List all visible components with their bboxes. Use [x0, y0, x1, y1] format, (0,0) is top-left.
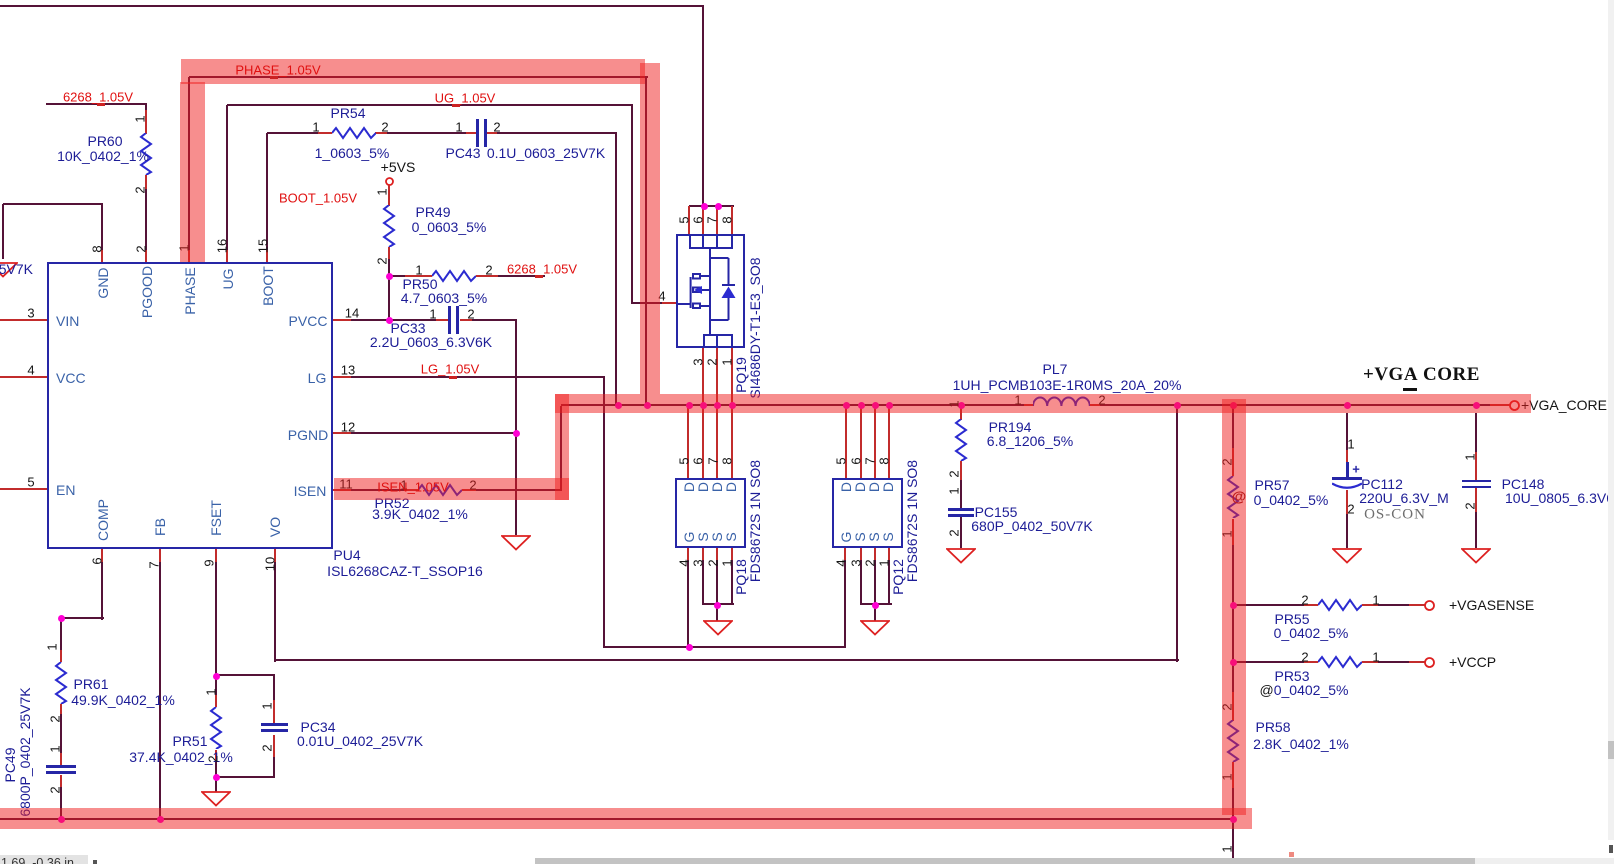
capacitor PC33 [448, 306, 451, 334]
wire net ISEN_1.05V from pin11 [333, 489, 418, 491]
label PR53 [1274, 668, 1309, 684]
pin number 7 [147, 561, 162, 568]
label PR50 [402, 276, 437, 292]
resistor PR55 [1318, 598, 1362, 612]
net label +VGA_CORE [1363, 364, 1418, 386]
refdes PQ19 [733, 357, 749, 393]
wire pin VCC wire [0, 376, 47, 378]
right scrollbar [1608, 0, 1614, 840]
pin name PHASE [182, 267, 198, 314]
junction [1174, 402, 1181, 409]
highlight right column [1222, 399, 1246, 815]
wire wire PC34 bottom [216, 776, 275, 778]
pin number 12 [341, 420, 355, 435]
highlight net PHASE_1.05V horizontal [181, 59, 645, 84]
label PC148 [1502, 476, 1545, 492]
label PR51 [172, 733, 207, 749]
wire net BOOT riser from pin15 [266, 133, 268, 262]
wire wire to PQ19 pin4 [632, 302, 676, 304]
pin name LG [308, 370, 327, 386]
pin name VO [267, 517, 283, 537]
junction [958, 402, 965, 409]
pin number 8 [90, 245, 105, 252]
resistor PR60 [139, 133, 153, 175]
wire wire output node to PR57 [1232, 406, 1234, 476]
wire pin FB wire to bottom net [159, 549, 161, 820]
pin number 1 bottom [1220, 845, 1235, 852]
junction [700, 402, 707, 409]
pin number 10 [263, 557, 278, 571]
wire wire PR51 pin2 [215, 750, 217, 778]
label PR58 [1255, 719, 1290, 735]
label PR57 [1254, 477, 1289, 493]
ground [860, 620, 890, 636]
junction [1230, 602, 1237, 609]
label PR52 [374, 495, 409, 511]
net label LG_1.05V [421, 362, 480, 377]
pin number 5 [27, 475, 34, 490]
terminal +VGASENSE [1423, 599, 1436, 612]
highlight bottom net [0, 808, 1252, 829]
junction [644, 402, 651, 409]
pin number 16 [215, 239, 230, 253]
junction [615, 402, 622, 409]
pin name BOOT [260, 266, 276, 306]
resistor PR52 [418, 483, 462, 497]
junction [213, 774, 220, 781]
wire net PHASE_1.05V drop to pin1 [188, 77, 190, 262]
ground [501, 535, 531, 551]
wire net LG_1.05V horizontal [333, 376, 605, 378]
label PC112 [1361, 476, 1403, 492]
junction [714, 402, 721, 409]
clipped label 25V7K [0, 261, 33, 277]
wire wire PQ18 to ground [716, 605, 718, 621]
wire wire PR55 to +VGASENSE [1362, 604, 1425, 606]
pin number 15 [256, 239, 271, 253]
pin number 4 [27, 363, 34, 378]
resistor PR49 [382, 205, 396, 247]
wire wire into GND pin8 [101, 204, 103, 262]
status bar coordinate box [0, 855, 88, 864]
pin name PVCC [289, 313, 328, 329]
resistor PR54 [332, 126, 376, 140]
wire pin COMP wire down [101, 549, 103, 620]
wire net UG_1.05V horizontal [227, 104, 633, 106]
label PC155 [975, 504, 1018, 520]
pin number 2 [134, 245, 149, 252]
net label +VGA_COREP [1521, 397, 1614, 413]
wire wire PR194 to PC155 [960, 461, 962, 509]
pin number 11 [339, 477, 353, 492]
pin number 4 PQ19 [658, 289, 665, 304]
wire wire to ground [215, 777, 217, 793]
wire bottom net wire [0, 818, 1234, 820]
junction [1230, 659, 1237, 666]
highlight net ISEN riser [555, 394, 569, 500]
wire wire PC43 to phase drop [486, 132, 617, 134]
wire [874, 560, 876, 606]
inductor PL7 [1033, 396, 1090, 407]
wire wire PQ12 source [860, 560, 862, 605]
wire wire PQ12 to ground [874, 605, 876, 621]
ground [1461, 548, 1491, 564]
wire wire PR52 to output node [462, 489, 562, 491]
wire wire PQ12 sources join [861, 603, 892, 605]
junction [686, 402, 693, 409]
capacitor PC148 [1462, 480, 1491, 483]
resistor PR58 [1226, 720, 1240, 762]
refdes PQ18 [733, 559, 749, 595]
wire PQ19 drain bracket [689, 205, 734, 207]
wire net UG_1.05V drop to PQ19 gate [631, 105, 633, 304]
resistor PR51 [209, 707, 223, 749]
junction [1230, 816, 1237, 823]
wire wire to PR61 pin1 [60, 618, 62, 662]
label OS-CON [1364, 507, 1426, 524]
label PR49 [415, 204, 450, 220]
refdes PU4 [333, 547, 360, 563]
capacitor PC34 [261, 723, 288, 726]
wire pin PGND wire [333, 432, 517, 434]
junction [213, 673, 220, 680]
junction [858, 402, 865, 409]
wire net ISEN riser to output node [560, 406, 562, 491]
resistor PR53 [1318, 655, 1362, 669]
ground [703, 620, 733, 636]
terminal +5VS [384, 176, 395, 187]
wire top rail to PQ19 drains [0, 5, 704, 7]
junction [1230, 402, 1237, 409]
net label PHASE_1.05V [235, 63, 320, 78]
wire net 6268_1.05V stub [46, 103, 147, 105]
wire wire PC33 to PGND drop [460, 319, 517, 321]
refdes PQ12 [890, 559, 906, 595]
highlight net +VGA_CORE main [555, 394, 1531, 413]
net label 6268_1.05V (2) [507, 262, 577, 277]
junction [701, 203, 708, 210]
pin name FB [152, 518, 168, 536]
wire wire output to PC148 [1475, 413, 1477, 480]
junction [386, 273, 393, 280]
scrollbar [535, 858, 1614, 864]
junction [886, 402, 893, 409]
wire wire PQ18 gate [687, 548, 689, 648]
wire wire PR49 to PVCC node [388, 247, 390, 321]
wire wire BOOT to PR54 [267, 132, 332, 134]
transistor Q PQ12 FDS8672S [832, 478, 903, 548]
pin name UG [220, 269, 236, 290]
wire pin EN wire [0, 488, 47, 490]
wire net PHASE_1.05V drop to output node [645, 77, 647, 407]
resistor PR57 [1226, 476, 1240, 518]
op-amp U1 : controller IC PU4 ISL6268CAZ-T_SSOP16 [47, 262, 333, 549]
net label 6268_1.05V [63, 90, 133, 105]
junction [715, 203, 722, 210]
wire wire PC49 to bottom net [60, 775, 62, 820]
wire wire to PR60 [145, 104, 147, 134]
net label BOOT_1.05V [279, 191, 357, 206]
pin name PGND [288, 427, 328, 443]
wire wire COMP to PR61 [61, 617, 104, 619]
label PR194 [989, 419, 1032, 435]
pin name FSET [208, 500, 224, 536]
label PR54 [330, 105, 365, 121]
ground [946, 548, 976, 564]
wire pin PVCC wire to PC33 [333, 319, 448, 321]
wire wire PC34 pin2 [273, 735, 275, 778]
net label UG_1.05V [435, 91, 496, 106]
junction [729, 402, 736, 409]
junction [686, 644, 693, 651]
pin number 6 [90, 557, 105, 564]
wire wire PQ12 gate [844, 548, 846, 648]
resistor PR194 [954, 419, 968, 461]
junction [843, 402, 850, 409]
net label +VCCP [1449, 654, 1496, 670]
pin number 9 [202, 559, 217, 566]
label PR61 [73, 676, 108, 692]
highlight net PHASE_1.05V left drop [180, 82, 205, 262]
label PR55 [1274, 611, 1309, 627]
wire wire PC112 to ground [1346, 490, 1348, 548]
pin name PGOOD [139, 266, 155, 318]
wire top rail drop to PQ19 [702, 6, 704, 206]
capacitor PC49 [46, 765, 76, 768]
capacitor PC43 [476, 119, 479, 147]
junction [872, 602, 879, 609]
junction [513, 430, 520, 437]
symbol @ PR57 [1232, 489, 1247, 506]
wire wire PR50 pin2 net 6268_1.05V [476, 275, 545, 277]
junction [872, 402, 879, 409]
transistor Q PQ19 SI4686DY-T1-E3_SO8 [676, 234, 745, 348]
ground (clipped at edge) [0, 262, 18, 278]
resistor PR61 [54, 662, 68, 704]
wire wire PR57 to PR58 [1232, 519, 1234, 721]
pin number 13 [341, 363, 355, 378]
wire [716, 560, 718, 606]
terminal +VCCP [1423, 656, 1436, 669]
wire wire to PR50 pin1 [389, 275, 432, 277]
wire wire LG to PQ18/PQ12 gates [604, 646, 846, 648]
wire net +VGA_CORE main wire right [1090, 404, 1510, 406]
junction [157, 816, 164, 823]
wire wire PR53 to +VCCP [1362, 661, 1425, 663]
wire wire PR54 to PC43 [375, 132, 477, 134]
label PC33 [390, 320, 425, 336]
wire net +VGA_CORE main wire [561, 404, 1033, 406]
wire wire output to PC112 [1346, 413, 1348, 478]
part value ISL6268CAZ-T_SSOP16 [327, 563, 483, 579]
capacitor PC155 [948, 508, 974, 511]
wire wire to PR53 [1233, 661, 1318, 663]
label PL7 [1043, 361, 1068, 377]
junction [1344, 402, 1351, 409]
wire pin VIN wire [0, 319, 47, 321]
wire wire PQ18 source [702, 560, 704, 605]
wire wire GND pin8 to edge ground [3, 203, 103, 205]
pin number 1 [177, 244, 192, 251]
wire wire PGND to ground [515, 434, 517, 535]
wire wire PR60 to PGOOD pin2 [145, 175, 147, 262]
wire net VO sense riser to output [1176, 406, 1178, 662]
wire [731, 560, 733, 605]
label PR60 [87, 133, 122, 149]
transistor Q PQ18 FDS8672S [675, 478, 746, 548]
wire net LG_1.05V drop [603, 377, 605, 648]
label +5VS [381, 159, 416, 175]
wire wire PC148 to ground [1475, 488, 1477, 548]
wire wire PR61 to PC49 [60, 704, 62, 766]
ground [1332, 548, 1362, 564]
wire net PHASE_1.05V horizontal [189, 76, 648, 78]
pin name GND [95, 267, 111, 298]
pin name EN [56, 482, 75, 498]
junction [386, 317, 393, 324]
wire net VO sense horizontal [275, 659, 1179, 661]
pin name COMP [95, 499, 111, 541]
wire wire FSET to PR51 [215, 676, 217, 707]
pin number 14 [345, 306, 359, 321]
wire pin VO wire down [274, 549, 276, 662]
highlight net ISEN horizontal [334, 478, 569, 500]
net label +VGASENSE [1449, 597, 1534, 613]
junction [1473, 402, 1480, 409]
pin number 3 [27, 306, 34, 321]
pin name VCC [56, 370, 86, 386]
wire net UG_1.05V riser from pin16 [226, 105, 228, 262]
wire wire PC43 down to output node [615, 133, 617, 406]
junction [58, 615, 65, 622]
wire wire PQ18 sources join [703, 603, 734, 605]
net label ISEN_1.05V [377, 480, 449, 495]
wire wire PC34 pin1 [273, 675, 275, 723]
ground [201, 791, 231, 807]
highlight net PHASE_1.05V right drop [640, 63, 660, 394]
label PC34 [300, 719, 335, 735]
wire wire down to PGND net [515, 320, 517, 434]
terminal +VGA_COREP [1508, 399, 1521, 412]
label PC49 [2, 747, 18, 782]
capacitor PC112 (polarized) [1332, 477, 1362, 480]
pin name ISEN [294, 483, 327, 499]
wire wire PC155 to ground [960, 514, 962, 548]
label PC43 [445, 145, 480, 161]
wire pin FSET wire down [215, 549, 217, 676]
junction [714, 602, 721, 609]
wire wire PR58 to bottom net [1232, 762, 1234, 864]
junction [58, 816, 65, 823]
wire wire to PR55 [1233, 604, 1318, 606]
pin name VIN [56, 313, 79, 329]
wire [888, 560, 890, 605]
wire wire drop to edge ground [2, 204, 4, 259]
wire wire to PC34 top [216, 674, 275, 676]
resistor PR50 [432, 269, 476, 283]
